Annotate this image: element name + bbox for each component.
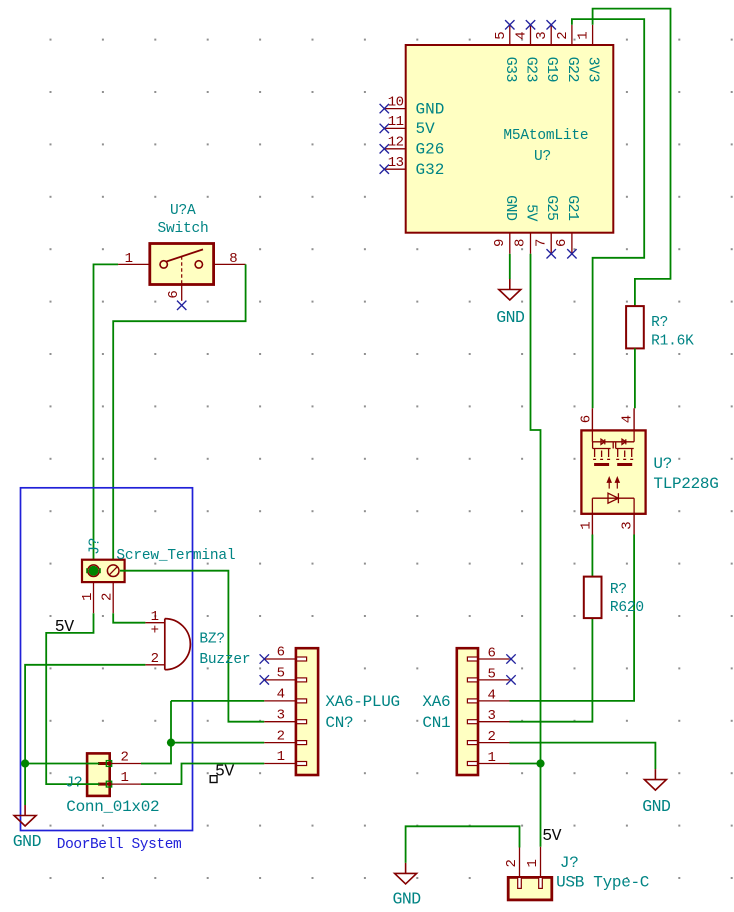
svg-text:R?: R? <box>651 315 668 331</box>
svg-text:1: 1 <box>579 522 595 530</box>
pin 5 XA6-PLUG <box>264 679 296 681</box>
pin 4 XA6 CN1 <box>478 700 510 702</box>
wire J? pin1 to CN? pin1 (5V) <box>141 764 264 785</box>
no-connect CN? pin 6 <box>260 654 269 663</box>
svg-text:Screw_Terminal: Screw_Terminal <box>116 548 235 564</box>
svg-text:8: 8 <box>229 251 237 267</box>
svg-text:XA6-PLUG: XA6-PLUG <box>325 693 399 711</box>
svg-text:J?: J? <box>88 538 104 555</box>
connector J? Screw_Terminal body <box>82 560 125 582</box>
svg-text:2: 2 <box>504 859 520 867</box>
wire 5V M5 pin8 to USB pin1 <box>531 254 541 847</box>
no-connect pin 13 <box>380 165 389 174</box>
connector J? USB Type-C body <box>508 877 552 900</box>
junction at CN? pin2 row <box>167 739 175 747</box>
no-connect CN? pin 5 <box>260 675 269 684</box>
resistor R? R620 <box>584 577 602 619</box>
svg-text:M5AtomLite: M5AtomLite <box>503 128 588 144</box>
TLP228G internal MOSFETs <box>592 430 634 457</box>
svg-text:6: 6 <box>488 646 496 662</box>
no-connect pin 6 <box>567 249 576 258</box>
pin 5 G33 <box>509 25 511 45</box>
svg-text:6: 6 <box>554 239 570 247</box>
svg-text:G32: G32 <box>416 161 445 179</box>
svg-text:2: 2 <box>121 750 129 766</box>
no-connect pin 4 <box>526 20 535 29</box>
pin 5 XA6 CN1 <box>478 679 510 681</box>
wire G22 to optocoupler pin6 <box>572 19 644 408</box>
svg-text:R620: R620 <box>610 600 644 616</box>
pin 11 5V <box>384 127 405 129</box>
svg-text:1: 1 <box>80 593 96 601</box>
pin 4 TLP228G <box>633 408 635 430</box>
svg-text:4: 4 <box>277 687 285 703</box>
svg-text:G19: G19 <box>543 57 560 82</box>
no-connect switch pin 6 <box>177 301 186 310</box>
wire 5V to CN1 pin1 <box>510 763 541 765</box>
svg-text:TLP228G: TLP228G <box>653 475 718 493</box>
pin 12 G26 <box>384 148 405 150</box>
svg-text:R1.6K: R1.6K <box>651 334 694 350</box>
svg-text:XA6: XA6 <box>422 693 450 711</box>
ground GND (M5 pin9) <box>499 279 521 300</box>
svg-text:G21: G21 <box>564 195 581 221</box>
wire switch pin8 down to screw terminal <box>113 264 245 570</box>
pin 6 XA6-PLUG <box>264 658 296 660</box>
svg-text:2: 2 <box>555 32 571 40</box>
wire screw pin1 to J? pin1 (5V) <box>46 613 99 784</box>
switch U?A body <box>150 244 214 285</box>
svg-text:6: 6 <box>166 291 182 299</box>
wire buzzer pin2 to ground rail <box>25 665 145 805</box>
svg-text:8: 8 <box>513 239 529 247</box>
svg-text:11: 11 <box>388 114 404 130</box>
wire to CN? pin4 <box>171 700 264 702</box>
svg-text:GND: GND <box>392 890 421 909</box>
no-connect pin 5 <box>505 20 514 29</box>
svg-text:12: 12 <box>388 135 404 151</box>
pin 1 screw <box>93 582 95 613</box>
svg-text:G22: G22 <box>564 57 581 82</box>
resistor R? R1.6K <box>626 306 644 348</box>
ground GND (doorbell) <box>14 805 36 826</box>
svg-text:G23: G23 <box>523 57 540 83</box>
junction 5V at CN1 pin1 <box>536 759 544 767</box>
svg-text:+: + <box>151 623 159 639</box>
svg-text:9: 9 <box>492 239 508 247</box>
svg-text:1: 1 <box>125 251 133 267</box>
svg-text:1: 1 <box>576 32 592 40</box>
wire R1.6K to optocoupler pin4 <box>634 348 636 408</box>
wire into J? pin2 pad <box>86 763 100 765</box>
svg-text:3: 3 <box>488 708 496 724</box>
svg-text:3: 3 <box>619 522 635 530</box>
svg-text:GND: GND <box>642 797 671 816</box>
ground GND (CN1) <box>644 769 666 790</box>
pin 2 XA6-PLUG <box>264 742 296 744</box>
wire optocoupler pin1 to R620 <box>591 535 593 577</box>
connector CN1 XA6 body <box>457 648 478 775</box>
svg-text:5V: 5V <box>542 826 561 845</box>
pin 1 switch <box>118 263 150 265</box>
pin 2 G22 <box>571 25 573 45</box>
svg-text:CN?: CN? <box>325 714 353 732</box>
pin 2 USB <box>519 848 521 878</box>
pin 10 GND <box>384 108 405 110</box>
wire CN1 pin4 to optocoupler pin3 <box>510 535 635 701</box>
wire pin9 to ground <box>509 254 511 279</box>
pin 2 screw <box>112 582 114 613</box>
junction GND rail at J? pin2 row <box>21 759 29 767</box>
svg-text:BZ?: BZ? <box>199 632 225 648</box>
wire gnd rail to J? pin2 <box>25 763 99 765</box>
pin 3 XA6 CN1 <box>478 721 510 723</box>
pin 4 G23 <box>530 25 532 45</box>
pin 1 TLP228G <box>591 514 593 535</box>
no-connect pin 3 <box>547 20 556 29</box>
svg-text:10: 10 <box>388 94 404 110</box>
pin 8 5V <box>530 233 532 254</box>
no-connect pin 10 <box>380 104 389 113</box>
svg-text:DoorBell System: DoorBell System <box>57 837 182 853</box>
pin 6 XA6 CN1 <box>478 658 510 660</box>
junction at screw pin1 <box>89 566 99 576</box>
wire to CN? pin2 <box>171 742 264 744</box>
svg-text:GND: GND <box>416 100 445 118</box>
svg-text:5V: 5V <box>523 204 540 221</box>
wire screw pin2 to buzzer pin1 <box>113 613 145 623</box>
connector J? Conn_01x02 body <box>87 753 110 796</box>
svg-text:1: 1 <box>121 770 129 786</box>
svg-text:4: 4 <box>619 415 635 423</box>
svg-text:5: 5 <box>488 666 496 682</box>
pin 1 buzzer + <box>145 622 164 624</box>
svg-text:G25: G25 <box>543 195 560 221</box>
wire USB pin2 to ground <box>406 826 520 863</box>
svg-text:6: 6 <box>277 645 285 661</box>
svg-text:3: 3 <box>534 32 550 40</box>
svg-text:3: 3 <box>277 707 285 723</box>
pin 8 switch <box>214 263 246 265</box>
pin 1 XA6-PLUG <box>264 763 296 765</box>
pin 1 3V3 <box>592 25 594 45</box>
svg-text:2: 2 <box>277 728 285 744</box>
pin 2 buzzer <box>145 664 164 666</box>
pin 9 GND <box>509 233 511 254</box>
no-connect pin 12 <box>380 144 389 153</box>
svg-text:G26: G26 <box>416 141 445 159</box>
svg-text:3V3: 3V3 <box>585 57 602 83</box>
svg-text:1: 1 <box>525 859 541 867</box>
pin 6 G21 <box>571 233 573 254</box>
pin 13 G32 <box>384 168 405 170</box>
svg-text:1: 1 <box>488 750 496 766</box>
svg-text:7: 7 <box>533 239 549 247</box>
pin 3 XA6-PLUG <box>264 721 296 723</box>
buzzer BZ? body <box>165 619 191 670</box>
pin end marks at screw pin1 <box>86 568 88 573</box>
svg-text:2: 2 <box>100 593 116 601</box>
pin 7 G25 <box>550 233 552 254</box>
pin 3 G19 <box>550 25 552 45</box>
svg-text:4: 4 <box>514 32 530 40</box>
svg-text:U?A: U?A <box>170 203 196 219</box>
svg-text:5V: 5V <box>416 120 436 138</box>
svg-text:U?: U? <box>534 149 551 165</box>
svg-text:R?: R? <box>610 582 627 598</box>
svg-text:Conn_01x02: Conn_01x02 <box>66 798 159 816</box>
no-connect pin 11 <box>380 124 389 133</box>
ground GND (USB) <box>395 863 417 884</box>
wire CN1 pin2 to ground <box>510 743 656 770</box>
svg-text:GND: GND <box>13 832 42 851</box>
pin 2 Conn_01x02 <box>98 762 110 765</box>
pin 4 XA6-PLUG <box>264 700 296 702</box>
module U? M5AtomLite body <box>406 45 614 233</box>
pin 6 switch <box>181 285 183 301</box>
TLP228G LED <box>592 493 634 514</box>
pin 1 USB <box>540 847 542 878</box>
svg-text:5: 5 <box>277 666 285 682</box>
connector CN? XA6-PLUG body <box>296 648 318 775</box>
pin 3 TLP228G <box>633 514 635 535</box>
svg-text:J?: J? <box>560 854 579 872</box>
wire J? pin2 up to CN? pin4 node <box>141 701 171 764</box>
no-connect CN1 pin 6 <box>506 654 515 663</box>
svg-text:5V: 5V <box>55 617 74 636</box>
pin 6 TLP228G <box>591 408 593 430</box>
svg-text:GND: GND <box>496 308 525 327</box>
svg-text:U?: U? <box>653 455 672 473</box>
optocoupler U? TLP228G body <box>581 430 645 513</box>
svg-text:1: 1 <box>277 749 285 765</box>
svg-text:5V: 5V <box>215 761 234 780</box>
TLP228G light arrows <box>607 478 619 489</box>
wire CN1 pin3 to R620 <box>510 618 593 722</box>
DoorBell System enclosure box <box>21 488 193 831</box>
wire switch pin1 down to screw terminal <box>94 264 119 570</box>
svg-text:4: 4 <box>488 687 496 703</box>
svg-text:USB Type-C: USB Type-C <box>556 874 649 892</box>
wire into J? pin1 pad <box>86 783 100 785</box>
wire 3V3 to R1.6K <box>593 9 671 307</box>
svg-text:6: 6 <box>579 415 595 423</box>
no-connect CN1 pin 5 <box>506 675 515 684</box>
svg-text:CN1: CN1 <box>422 714 450 732</box>
svg-text:GND: GND <box>502 195 519 221</box>
svg-text:Switch: Switch <box>158 221 209 237</box>
svg-text:G33: G33 <box>502 57 519 83</box>
wire screw pin2 node to CN? pin3 <box>120 571 264 722</box>
pin 1 XA6 CN1 <box>478 763 510 765</box>
pin 1 Conn_01x02 <box>98 783 110 786</box>
power flag 5V <box>210 776 217 783</box>
svg-text:J?: J? <box>65 776 82 792</box>
svg-text:2: 2 <box>488 729 496 745</box>
pin 2 XA6 CN1 <box>478 742 510 744</box>
svg-text:13: 13 <box>388 155 404 171</box>
svg-text:Buzzer: Buzzer <box>199 652 250 668</box>
no-connect pin 7 <box>547 249 556 258</box>
svg-text:2: 2 <box>151 651 159 667</box>
svg-text:5: 5 <box>493 32 509 40</box>
